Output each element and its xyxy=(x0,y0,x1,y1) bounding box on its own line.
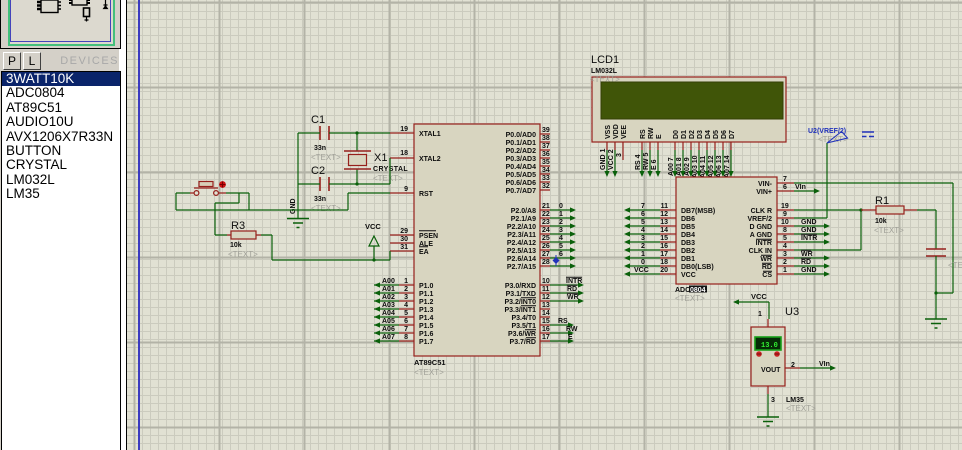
svg-text:RW: RW xyxy=(566,326,578,333)
svg-text:<TEXT>: <TEXT> xyxy=(373,174,403,183)
svg-text:DB4: DB4 xyxy=(681,232,695,239)
svg-text:P2.7/A15: P2.7/A15 xyxy=(507,264,536,271)
svg-text:26: 26 xyxy=(542,243,550,250)
svg-text:P3.6/WR: P3.6/WR xyxy=(508,331,536,338)
svg-text:GND 1: GND 1 xyxy=(600,149,607,171)
svg-text:A01: A01 xyxy=(382,286,395,293)
svg-text:A02: A02 xyxy=(382,294,395,301)
svg-text:U2(VREF/2): U2(VREF/2) xyxy=(808,128,846,135)
svg-text:17: 17 xyxy=(660,251,668,258)
svg-text:<TEXT>: <TEXT> xyxy=(311,204,341,213)
wire capacitor to ground xyxy=(935,256,937,319)
svg-text:D1: D1 xyxy=(681,130,688,139)
svg-text:EA: EA xyxy=(419,249,429,256)
svg-text:VIn: VIn xyxy=(795,184,806,191)
svg-text:D7: D7 xyxy=(729,130,736,139)
svg-text:CLK IN: CLK IN xyxy=(749,248,772,255)
svg-text:P3.4/T0: P3.4/T0 xyxy=(511,315,536,322)
svg-text:8: 8 xyxy=(783,227,787,234)
crystal X1 xyxy=(344,133,408,184)
U1 right pin names xyxy=(504,132,536,346)
wire VCC to U3 pin1 xyxy=(733,292,769,319)
svg-text:1: 1 xyxy=(758,311,762,318)
svg-text:33n: 33n xyxy=(314,145,326,152)
svg-text:1: 1 xyxy=(404,278,408,285)
svg-text:A07: A07 xyxy=(382,334,395,341)
LCD1 wires down with net arrows xyxy=(604,150,733,177)
svg-text:23: 23 xyxy=(542,219,550,226)
wire XTAL1 net xyxy=(298,132,390,134)
svg-text:P2.0/A8: P2.0/A8 xyxy=(511,208,536,215)
svg-text:18: 18 xyxy=(660,259,668,266)
wire U3 pin3 to ground xyxy=(767,394,769,417)
svg-text:P3.2/INT0: P3.2/INT0 xyxy=(504,299,536,306)
svg-text:INTR: INTR xyxy=(566,278,582,285)
ground (clock RC) xyxy=(925,319,947,328)
wire VREF/2 to probe xyxy=(794,143,827,218)
svg-text:P1.1: P1.1 xyxy=(419,291,434,298)
svg-text:P0.7/AD7: P0.7/AD7 xyxy=(506,188,536,195)
svg-text:20: 20 xyxy=(660,267,668,274)
svg-text:2: 2 xyxy=(783,259,787,266)
U2 right pin names xyxy=(747,181,772,279)
svg-text:5: 5 xyxy=(783,235,787,242)
svg-text:PSEN: PSEN xyxy=(419,233,438,240)
wire CLK R / CLK IN loop xyxy=(794,210,861,250)
svg-text:37: 37 xyxy=(542,143,550,150)
overview window xyxy=(0,0,121,49)
svg-text:32: 32 xyxy=(542,183,550,190)
svg-text:5: 5 xyxy=(404,310,408,317)
svg-text:CRYSTAL: CRYSTAL xyxy=(373,166,408,173)
svg-text:<TEXT>: <TEXT> xyxy=(786,404,816,413)
svg-text:P0.0/AD0: P0.0/AD0 xyxy=(506,132,536,139)
svg-text:D2: D2 xyxy=(689,130,696,139)
svg-text:DB5: DB5 xyxy=(681,224,695,231)
svg-text:1: 1 xyxy=(641,251,645,258)
svg-text:<TEXT>: <TEXT> xyxy=(228,250,258,259)
svg-text:D GND: D GND xyxy=(749,224,772,231)
wire C1/C2 left + ground drop xyxy=(298,133,320,216)
voltage probe U2(VREF/2) xyxy=(808,128,874,144)
op MCU U1 AT89C51 body xyxy=(414,124,540,377)
svg-text:14: 14 xyxy=(660,227,668,234)
svg-text:0804: 0804 xyxy=(690,287,706,294)
svg-text:LM35: LM35 xyxy=(786,397,804,404)
svg-text:5: 5 xyxy=(559,243,563,250)
svg-text:CS: CS xyxy=(762,272,772,279)
svg-text:P0.4/AD4: P0.4/AD4 xyxy=(506,164,536,171)
capacitor C1 33n xyxy=(311,114,341,162)
svg-text:12: 12 xyxy=(660,211,668,218)
svg-text:A05 12: A05 12 xyxy=(708,155,715,178)
svg-text:X1: X1 xyxy=(374,152,387,164)
svg-text:18: 18 xyxy=(400,150,408,157)
LCD1 pin names (rotated) xyxy=(605,124,736,139)
svg-text:P2.1/A9: P2.1/A9 xyxy=(511,216,536,223)
svg-text:3: 3 xyxy=(404,294,408,301)
svg-text:A GND: A GND xyxy=(750,232,772,239)
svg-text:A04: A04 xyxy=(382,310,395,317)
svg-text:6: 6 xyxy=(404,318,408,325)
svg-text:2: 2 xyxy=(791,362,795,369)
svg-text:GND: GND xyxy=(290,198,297,214)
svg-text:VCC: VCC xyxy=(365,222,381,231)
node A00-A07 net wires at P1 xyxy=(374,278,399,344)
svg-text:INTR: INTR xyxy=(756,240,772,247)
svg-text:WR: WR xyxy=(801,251,813,258)
svg-text:9: 9 xyxy=(404,186,408,193)
U2 right pin numbers xyxy=(781,176,789,274)
svg-text:16: 16 xyxy=(542,326,550,333)
svg-text:WR: WR xyxy=(760,256,772,263)
svg-text:U3: U3 xyxy=(785,306,799,318)
wire VIN- long net xyxy=(794,183,953,293)
svg-text:13: 13 xyxy=(660,219,668,226)
svg-text:11: 11 xyxy=(661,203,669,210)
svg-text:3: 3 xyxy=(783,251,787,258)
svg-text:4: 4 xyxy=(641,227,645,234)
svg-text:A00 7: A00 7 xyxy=(668,157,675,176)
svg-text:3: 3 xyxy=(616,153,623,157)
svg-text:35: 35 xyxy=(542,159,550,166)
svg-text:2: 2 xyxy=(641,243,645,250)
ground (LM35) xyxy=(757,417,779,426)
svg-text:P2.3/A11: P2.3/A11 xyxy=(507,232,536,239)
L button xyxy=(23,52,41,70)
svg-text:VEE: VEE xyxy=(621,125,628,139)
svg-text:GND: GND xyxy=(801,227,817,234)
svg-text:29: 29 xyxy=(400,228,408,235)
svg-text:<TEXT>: <TEXT> xyxy=(414,368,444,377)
svg-text:C1: C1 xyxy=(311,114,325,126)
svg-text:17: 17 xyxy=(542,334,550,341)
resistor R1 10k xyxy=(861,195,917,235)
svg-text:5: 5 xyxy=(641,219,645,226)
svg-text:RS 4: RS 4 xyxy=(635,154,642,170)
svg-text:13: 13 xyxy=(542,302,550,309)
wire button branch to R3 xyxy=(215,193,239,235)
svg-text:10: 10 xyxy=(542,278,550,285)
svg-text:RD: RD xyxy=(762,264,772,271)
origin marker at P2.7 xyxy=(553,257,560,264)
svg-text:7: 7 xyxy=(404,326,408,333)
svg-text:1: 1 xyxy=(559,211,563,218)
svg-text:VSS: VSS xyxy=(605,125,612,139)
svg-text:P0.6/AD6: P0.6/AD6 xyxy=(506,180,536,187)
svg-text:GND: GND xyxy=(801,267,817,274)
device list xyxy=(1,71,121,450)
svg-text:11: 11 xyxy=(542,286,550,293)
svg-text:RW 5: RW 5 xyxy=(643,153,650,170)
svg-text:CLK R: CLK R xyxy=(751,208,772,215)
svg-text:D5: D5 xyxy=(713,130,720,139)
svg-text:P2.6/A14: P2.6/A14 xyxy=(507,256,536,263)
svg-text:AT89C51: AT89C51 xyxy=(414,358,446,367)
svg-text:R3: R3 xyxy=(231,220,245,232)
svg-text:14: 14 xyxy=(542,310,550,317)
svg-text:P1.7: P1.7 xyxy=(419,339,434,346)
mini schematic marks xyxy=(0,0,121,44)
svg-text:RD: RD xyxy=(801,259,811,266)
junction dots crystal xyxy=(355,131,358,134)
svg-text:E 6: E 6 xyxy=(651,159,658,170)
svg-text:27: 27 xyxy=(542,251,550,258)
U2 left bus labels 7-0 + VCC xyxy=(634,203,649,274)
P2 bus stub wires with labels 0-6 xyxy=(550,203,576,269)
svg-text:ADC: ADC xyxy=(675,287,690,294)
svg-text:LM032L: LM032L xyxy=(591,68,618,75)
svg-text:DB6: DB6 xyxy=(681,216,695,223)
wire R3 to EA xyxy=(261,235,390,260)
svg-text:2: 2 xyxy=(559,219,563,226)
svg-text:P3.3/INT1: P3.3/INT1 xyxy=(504,307,536,314)
svg-text:<TEXT>: <TEXT> xyxy=(948,261,962,270)
ADC U2 ADC0804 body xyxy=(675,177,777,303)
wire button right to RST net xyxy=(226,193,249,210)
U1 left pin names xyxy=(419,131,441,346)
U1 right pin numbers xyxy=(542,127,550,341)
svg-text:P1.0: P1.0 xyxy=(419,283,434,290)
svg-text:9: 9 xyxy=(783,211,787,218)
svg-text:VCC: VCC xyxy=(681,272,696,279)
LCD LCD1 LM032L xyxy=(590,54,786,142)
svg-text:E: E xyxy=(656,134,663,139)
svg-text:GND: GND xyxy=(801,219,817,226)
U2 left pin stubs + wires + arrows xyxy=(624,207,676,276)
svg-text:10k: 10k xyxy=(230,242,242,249)
svg-text:P2.4/A12: P2.4/A12 xyxy=(507,240,536,247)
svg-text:R1: R1 xyxy=(875,195,889,207)
svg-text:8: 8 xyxy=(404,334,408,341)
svg-text:16: 16 xyxy=(660,243,668,250)
svg-text:6: 6 xyxy=(783,184,787,191)
svg-text:31: 31 xyxy=(400,244,408,251)
svg-text:A05: A05 xyxy=(382,318,395,325)
wire RST net xyxy=(176,193,390,210)
push button xyxy=(190,181,226,195)
svg-text:2: 2 xyxy=(404,286,408,293)
wire U3 VOUT to Vin terminal xyxy=(800,361,836,371)
svg-text:XTAL2: XTAL2 xyxy=(419,156,441,163)
svg-text:VIn: VIn xyxy=(819,361,830,368)
svg-text:3: 3 xyxy=(641,235,645,242)
svg-text:A01 8: A01 8 xyxy=(676,157,683,176)
U1 right pin stubs xyxy=(540,134,550,341)
svg-text:P2.5/A13: P2.5/A13 xyxy=(507,248,536,255)
svg-text:DB0(LSB): DB0(LSB) xyxy=(681,264,714,271)
U1 left pin stubs xyxy=(390,133,414,341)
svg-text:7: 7 xyxy=(783,176,787,183)
svg-text:DB1: DB1 xyxy=(681,256,695,263)
svg-text:0: 0 xyxy=(641,259,645,266)
svg-text:25: 25 xyxy=(542,235,550,242)
svg-text:10: 10 xyxy=(781,219,789,226)
wire R1 right to capacitor xyxy=(917,210,936,249)
resistor R3 10k xyxy=(227,220,261,259)
svg-text:22: 22 xyxy=(542,211,550,218)
svg-text:XTAL1: XTAL1 xyxy=(419,131,441,138)
svg-text:VDD: VDD xyxy=(613,124,620,139)
svg-text:P0.5/AD5: P0.5/AD5 xyxy=(506,172,536,179)
svg-text:30: 30 xyxy=(400,236,408,243)
U2 left pin names xyxy=(681,208,715,279)
svg-text:36: 36 xyxy=(542,151,550,158)
svg-text:39: 39 xyxy=(542,127,550,134)
U2 right GND/INTR/WR/RD nets xyxy=(794,219,830,277)
P button xyxy=(3,52,21,70)
svg-text:15: 15 xyxy=(660,235,668,242)
svg-text:A02 9: A02 9 xyxy=(684,157,691,176)
svg-text:RS: RS xyxy=(558,318,568,325)
svg-text:19: 19 xyxy=(781,203,789,210)
svg-text:33: 33 xyxy=(542,175,550,182)
svg-text:P0.2/AD2: P0.2/AD2 xyxy=(506,148,536,155)
svg-text:RST: RST xyxy=(419,191,434,198)
U2 left pin numbers xyxy=(660,203,668,274)
svg-text:<TEXT>: <TEXT> xyxy=(311,153,341,162)
svg-text:INTR: INTR xyxy=(801,235,817,242)
svg-text:21: 21 xyxy=(542,203,550,210)
svg-text:VOUT: VOUT xyxy=(761,367,781,374)
svg-text:P1.5: P1.5 xyxy=(419,323,434,330)
svg-text:7: 7 xyxy=(641,203,645,210)
svg-text:4: 4 xyxy=(404,302,408,309)
svg-text:VIN+: VIN+ xyxy=(756,189,772,196)
svg-text:D3: D3 xyxy=(697,130,704,139)
svg-text:A00: A00 xyxy=(382,278,395,285)
svg-text:P1.6: P1.6 xyxy=(419,331,434,338)
svg-text:3: 3 xyxy=(559,227,563,234)
svg-text:VCC 2: VCC 2 xyxy=(608,149,615,170)
svg-text:6: 6 xyxy=(559,251,563,258)
svg-text:A07 14: A07 14 xyxy=(724,155,731,178)
svg-text:0: 0 xyxy=(559,203,563,210)
DEVICES header xyxy=(42,55,119,67)
svg-text:RW: RW xyxy=(648,127,655,139)
svg-text:38: 38 xyxy=(542,135,550,142)
LCD1 net labels + pin numbers (rotated) xyxy=(600,149,731,179)
svg-text:1: 1 xyxy=(783,267,787,274)
svg-text:4: 4 xyxy=(559,235,563,242)
svg-text:A03 10: A03 10 xyxy=(692,155,699,178)
svg-text:D0: D0 xyxy=(673,130,680,139)
svg-text:LCD1: LCD1 xyxy=(591,54,619,66)
svg-text:DB3: DB3 xyxy=(681,240,695,247)
svg-text:P1.3: P1.3 xyxy=(419,307,434,314)
svg-text:6: 6 xyxy=(641,211,645,218)
U1 left pin numbers xyxy=(400,126,408,341)
svg-text:P3.5/T1: P3.5/T1 xyxy=(511,323,536,330)
svg-text:A03: A03 xyxy=(382,302,395,309)
svg-text:24: 24 xyxy=(542,227,550,234)
svg-text:A06: A06 xyxy=(382,326,395,333)
svg-text:P1.4: P1.4 xyxy=(419,315,434,322)
svg-text:P3.1/TXD: P3.1/TXD xyxy=(506,291,536,298)
svg-text:DB7(MSB): DB7(MSB) xyxy=(681,208,715,215)
svg-text:12: 12 xyxy=(542,294,550,301)
svg-text:RD: RD xyxy=(567,286,577,293)
svg-text:DB2: DB2 xyxy=(681,248,695,255)
svg-text:10k: 10k xyxy=(875,218,887,225)
svg-text:19: 19 xyxy=(400,126,408,133)
svg-text:C2: C2 xyxy=(311,165,325,177)
svg-text:<TEXT>: <TEXT> xyxy=(874,226,904,235)
svg-text:33n: 33n xyxy=(314,196,326,203)
svg-text:P0.1/AD1: P0.1/AD1 xyxy=(506,140,536,147)
svg-text:<TEXT>: <TEXT> xyxy=(675,294,705,303)
power VCC (EA pull-up) xyxy=(365,222,381,262)
svg-text:4: 4 xyxy=(783,243,787,250)
svg-text:D6: D6 xyxy=(721,130,728,139)
svg-text:34: 34 xyxy=(542,167,550,174)
capacitor (CLK) xyxy=(926,249,962,270)
wire XTAL2 net xyxy=(329,158,390,184)
svg-text:3: 3 xyxy=(771,397,775,404)
svg-text:P3.0/RXD: P3.0/RXD xyxy=(505,283,536,290)
svg-text:A04 11: A04 11 xyxy=(700,156,707,178)
sheet border (blue) xyxy=(138,0,140,450)
P3 net wires INTR/RD/WR/RS/RW/E xyxy=(550,277,584,343)
svg-text:VCC: VCC xyxy=(751,292,767,301)
svg-text:28: 28 xyxy=(542,259,550,266)
wire VIN+ to VIn terminal xyxy=(794,184,820,194)
U2 right pin stubs xyxy=(777,183,794,274)
svg-text:P1.2: P1.2 xyxy=(419,299,434,306)
svg-text:VREF/2: VREF/2 xyxy=(747,216,772,223)
svg-text:P2.2/A10: P2.2/A10 xyxy=(507,224,536,231)
svg-text:13.0: 13.0 xyxy=(761,342,778,350)
U3 pin numbers xyxy=(758,311,795,404)
LCD1 pin stubs xyxy=(607,142,731,160)
U3 pin stubs xyxy=(768,319,800,394)
svg-text:P0.3/AD3: P0.3/AD3 xyxy=(506,156,536,163)
svg-text:D4: D4 xyxy=(705,130,712,139)
svg-text:E: E xyxy=(568,334,573,341)
capacitor C2 33n xyxy=(311,165,341,213)
svg-text:A06 13: A06 13 xyxy=(716,155,723,178)
svg-text:VCC: VCC xyxy=(634,267,649,274)
svg-text:VIN-: VIN- xyxy=(758,181,773,188)
svg-text:P3.7/RD: P3.7/RD xyxy=(510,339,536,346)
svg-text:RS: RS xyxy=(640,129,647,139)
svg-text:WR: WR xyxy=(567,294,579,301)
sensor U3 LM35 xyxy=(751,306,816,413)
svg-text:15: 15 xyxy=(542,318,550,325)
ground (crystal caps) xyxy=(287,198,309,227)
